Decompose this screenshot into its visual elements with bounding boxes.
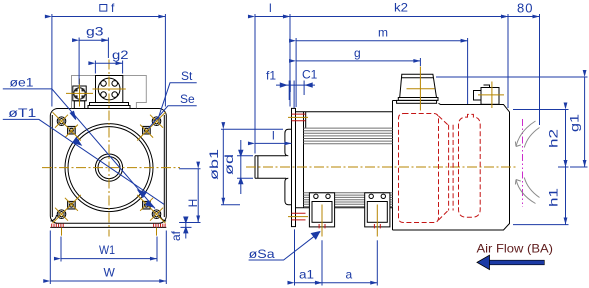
terminal box 1	[309, 193, 334, 227]
cooling fins top	[304, 128, 393, 144]
svg-text:f1: f1	[266, 69, 276, 83]
leader oT1 with diameter dimension	[3, 119, 164, 204]
shaft boss circle	[95, 154, 122, 181]
svg-text:Air Flow (BA): Air Flow (BA)	[477, 242, 554, 256]
leader Se	[148, 106, 196, 129]
flange outline	[50, 109, 166, 228]
dim g	[296, 58, 420, 66]
dim W1	[61, 237, 157, 262]
leader St	[158, 83, 197, 119]
red mounting hatch bottom-left	[52, 224, 64, 228]
dim k2	[290, 14, 508, 108]
terminal box 2	[365, 193, 390, 227]
svg-text:ød: ød	[222, 154, 236, 175]
brake outline dashed rect A	[399, 114, 439, 223]
svg-text:C1: C1	[302, 68, 318, 82]
rear connector small	[474, 85, 500, 104]
pilot boss	[285, 129, 292, 205]
rear connector small centerlines	[478, 82, 504, 109]
red mounting hatch bottom-right	[154, 224, 166, 228]
front vertical centerline	[108, 60, 110, 237]
front horizontal centerline	[42, 167, 180, 169]
dim m	[296, 38, 468, 107]
dim 80	[508, 14, 540, 125]
red foot pads box2	[374, 224, 380, 228]
svg-text:g2: g2	[112, 48, 129, 62]
brake diagonal bottom	[439, 210, 449, 220]
svg-text:g3: g3	[86, 25, 104, 39]
svg-text:h2: h2	[547, 129, 561, 148]
tapped hole top-left	[68, 126, 76, 134]
dim W	[50, 231, 166, 285]
svg-text:g: g	[354, 46, 361, 60]
svg-text:m: m	[378, 26, 388, 40]
dim H	[179, 169, 200, 223]
tapped hole top-right	[143, 126, 151, 134]
rear housing	[393, 101, 510, 231]
big connector horizontal centerline	[93, 88, 126, 90]
dim l shaft	[255, 14, 290, 154]
magenta airflow plane	[522, 119, 524, 207]
brake diagonal top	[439, 116, 449, 126]
flange hole hidden lines red bottom	[292, 213, 306, 220]
svg-text:af: af	[169, 230, 183, 241]
svg-text:l: l	[272, 129, 275, 143]
pilot circle inner	[68, 127, 150, 209]
dim od	[237, 140, 253, 194]
hole centerline ticks bottom-left	[53, 195, 81, 223]
svg-text:W1: W1	[99, 243, 115, 257]
tapped hole bottom-right	[143, 201, 151, 209]
svg-text:a: a	[346, 268, 353, 282]
dim h1	[513, 167, 569, 225]
red foot pads box1	[319, 224, 325, 228]
hole centerline ticks top-right	[137, 112, 165, 140]
svg-text:80: 80	[517, 1, 533, 16]
svg-text:St: St	[181, 69, 193, 83]
dim l keyway	[255, 141, 292, 153]
connector housing gray outline	[72, 76, 147, 109]
dim h2	[513, 110, 569, 168]
svg-text:øe1: øe1	[10, 76, 34, 90]
dim ob1	[221, 129, 283, 205]
svg-text:l: l	[269, 1, 272, 15]
svg-text:øSa: øSa	[249, 247, 275, 261]
rear connector big	[397, 74, 438, 103]
motor body	[296, 101, 393, 231]
dim g3	[79, 38, 108, 85]
mounting hole top-right	[152, 117, 161, 126]
dim af	[181, 217, 192, 239]
small connector centerlines	[66, 79, 93, 107]
dim square-f	[52, 5, 165, 107]
svg-text:g1: g1	[568, 114, 582, 132]
box centerline 1	[321, 205, 323, 237]
leader oe1 with diagonal dimension	[3, 89, 155, 209]
cooling fins bottom	[304, 193, 393, 207]
shaft	[255, 156, 286, 178]
big connector front	[88, 76, 130, 109]
small connector front	[73, 86, 86, 109]
svg-text:W: W	[104, 266, 116, 280]
flange hole hidden lines red top	[292, 114, 306, 121]
hole centerline ticks bottom-right	[137, 195, 165, 223]
pilot circle	[65, 124, 153, 212]
leader oSa	[249, 231, 320, 260]
svg-text:h1: h1	[547, 188, 561, 207]
orange stubs below flange	[62, 228, 157, 237]
hole centerline ticks top-left	[53, 112, 81, 140]
dim a1	[295, 229, 323, 285]
svg-text:k2: k2	[394, 1, 408, 15]
dim g1	[436, 77, 588, 167]
flange plate side	[292, 108, 296, 226]
air curl arrow bottom	[515, 178, 539, 204]
dim g2	[95, 61, 122, 74]
rear connector big centerlines	[407, 67, 435, 111]
flange hole centerlines side	[288, 117, 308, 216]
shaft circle	[98, 157, 120, 179]
svg-text:øb1: øb1	[207, 149, 221, 180]
svg-text:a1: a1	[299, 268, 314, 282]
dim a	[322, 240, 377, 285]
svg-text:Se: Se	[180, 92, 195, 106]
brake rounded body C	[459, 114, 481, 217]
mounting hole bottom-left	[57, 210, 66, 219]
box centerline 2	[376, 205, 378, 237]
air curl arrow top	[515, 121, 539, 148]
air flow arrow	[477, 255, 544, 269]
brake disc lines	[449, 125, 454, 211]
tapped hole bottom-left	[68, 201, 76, 209]
svg-text:H: H	[186, 199, 200, 208]
mounting hole bottom-right	[152, 210, 161, 219]
side main centerline	[246, 166, 518, 168]
dim f1	[276, 81, 315, 109]
svg-text:øT1: øT1	[8, 106, 36, 120]
mounting hole top-left	[57, 117, 66, 126]
